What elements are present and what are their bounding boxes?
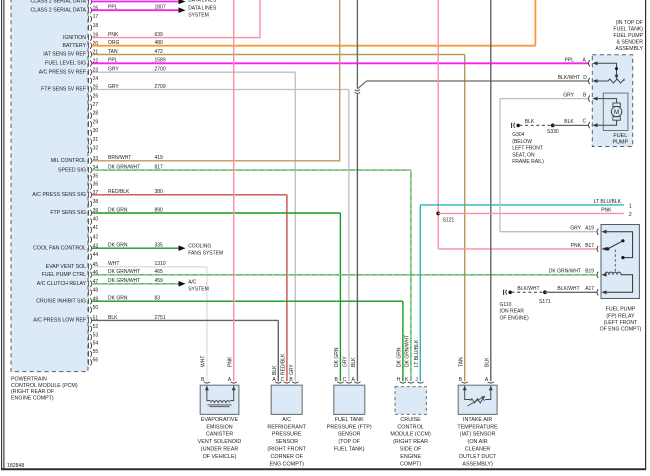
CCM pin K (DK GRN/WHT) xyxy=(408,382,414,383)
fuel pump pin D (BLK/WHT) xyxy=(589,78,590,84)
svg-text:CANISTER: CANISTER xyxy=(206,432,233,438)
relay armature dashed link xyxy=(614,250,616,274)
inline connector on BLK/WHT wire xyxy=(355,90,360,91)
svg-text:MIL CONTROL: MIL CONTROL xyxy=(51,158,86,164)
svg-text:FRAME RAIL): FRAME RAIL) xyxy=(512,159,544,165)
fuel pump pin A (PPL fuel level signal) xyxy=(589,60,590,66)
svg-text:(UNDER REAR: (UNDER REAR xyxy=(201,447,239,453)
svg-text:EMISSION: EMISSION xyxy=(206,424,232,430)
relay coil L1 xyxy=(605,272,621,275)
svg-text:S330: S330 xyxy=(547,129,559,135)
svg-text:55: 55 xyxy=(93,349,99,355)
svg-text:472: 472 xyxy=(155,49,164,55)
wire BLK from S330 to fuel pump pin C xyxy=(553,124,588,126)
svg-text:PRESSURE (FTP): PRESSURE (FTP) xyxy=(327,424,372,430)
fuel pump pin C (BLK ground) xyxy=(589,122,590,128)
EVAP pin A (PNK) xyxy=(231,382,237,383)
svg-text:18: 18 xyxy=(93,23,99,29)
wire DK GRN/WHT 465 fuel pump ctrl (pin 46) to fuel pump relay pin B19 xyxy=(92,274,597,276)
svg-text:M: M xyxy=(614,109,619,116)
svg-text:B19: B19 xyxy=(585,269,594,275)
svg-text:BLK: BLK xyxy=(484,357,490,367)
svg-text:ENGINE COMPT): ENGINE COMPT) xyxy=(11,396,54,402)
svg-text:A/C PRESS SENS SIG: A/C PRESS SENS SIG xyxy=(32,192,86,198)
fuel pump pin B (GRY) xyxy=(589,96,590,102)
svg-text:BLK/WHT: BLK/WHT xyxy=(558,75,580,81)
svg-text:G304: G304 xyxy=(512,132,524,138)
wire BLK below inline connector to FTP sensor pin A xyxy=(356,94,358,381)
page border left (double line) xyxy=(1,0,3,470)
svg-text:COOL FAN CONTROL: COOL FAN CONTROL xyxy=(33,245,86,251)
svg-text:(LEFT FRONT: (LEFT FRONT xyxy=(604,320,638,326)
FTP pin C (GRY) xyxy=(346,382,352,383)
svg-text:CLASS 2 SERIAL DATA: CLASS 2 SERIAL DATA xyxy=(30,0,86,5)
svg-text:A17: A17 xyxy=(585,286,594,292)
fuel tank pressure sensor B2 box xyxy=(334,385,365,414)
svg-text:28: 28 xyxy=(93,111,99,117)
svg-text:(RIGHT REAR OF: (RIGHT REAR OF xyxy=(11,389,55,395)
svg-text:CORNER OF: CORNER OF xyxy=(271,454,304,460)
svg-text:BLK: BLK xyxy=(525,119,535,125)
svg-text:419: 419 xyxy=(155,155,164,161)
svg-text:335: 335 xyxy=(155,243,164,249)
svg-text:480: 480 xyxy=(155,40,164,46)
wire PNK branch from S121 to right edge (2) xyxy=(438,212,624,214)
svg-text:182848: 182848 xyxy=(7,463,24,469)
PCM U1 Powertrain Control Module box xyxy=(11,0,88,372)
svg-text:40: 40 xyxy=(93,217,99,223)
arrow to data lines system xyxy=(179,7,186,13)
svg-text:A/C PRESS LOW REF: A/C PRESS LOW REF xyxy=(33,318,86,324)
PCM connector pins 15-56 xyxy=(88,0,90,4)
svg-text:OUTLET DUCT: OUTLET DUCT xyxy=(459,454,497,460)
svg-text:A19: A19 xyxy=(585,226,594,232)
svg-text:DK GRN: DK GRN xyxy=(334,347,340,367)
FTP pin B (DK GRN) xyxy=(337,382,343,383)
svg-text:EVAP VENT SOL: EVAP VENT SOL xyxy=(46,264,86,270)
wire BRN/WHT 419 MIL control (pin 33), runs right and up off-page xyxy=(92,160,340,162)
splice S171 xyxy=(543,290,547,294)
svg-text:SYSTEM: SYSTEM xyxy=(188,12,209,18)
svg-text:C: C xyxy=(281,377,285,383)
svg-text:TAN: TAN xyxy=(458,357,464,367)
svg-text:BLK: BLK xyxy=(108,315,118,321)
svg-text:53: 53 xyxy=(93,332,99,338)
svg-text:380: 380 xyxy=(155,189,164,195)
svg-text:1310: 1310 xyxy=(155,261,166,267)
svg-text:LEFT FRONT: LEFT FRONT xyxy=(512,146,543,152)
svg-text:EVAPORATIVE: EVAPORATIVE xyxy=(201,417,239,423)
svg-text:DK GRN/WHT: DK GRN/WHT xyxy=(108,278,140,284)
svg-text:CRUISE INHIBIT SIG: CRUISE INHIBIT SIG xyxy=(36,298,86,304)
svg-text:FUEL TANK: FUEL TANK xyxy=(335,417,364,423)
svg-text:WHT: WHT xyxy=(201,356,207,367)
svg-text:S171: S171 xyxy=(539,299,551,305)
svg-text:83: 83 xyxy=(155,296,161,302)
svg-text:1589: 1589 xyxy=(155,58,166,64)
ground G304 xyxy=(511,123,513,128)
svg-text:POWERTRAIN: POWERTRAIN xyxy=(11,376,47,382)
svg-text:24: 24 xyxy=(93,76,99,82)
svg-text:30: 30 xyxy=(93,128,99,134)
svg-text:459: 459 xyxy=(155,278,164,284)
svg-text:17: 17 xyxy=(93,14,99,20)
svg-text:35: 35 xyxy=(93,173,99,179)
svg-text:SENSOR: SENSOR xyxy=(275,439,298,445)
cruise control module box (dashed) xyxy=(395,387,426,415)
svg-text:DK GRN: DK GRN xyxy=(108,296,128,302)
relay pin B19 (DK GRN/WHT) xyxy=(597,272,598,278)
page border right xyxy=(645,0,647,470)
svg-text:(ON AIR: (ON AIR xyxy=(468,439,488,445)
svg-text:PUMP: PUMP xyxy=(613,140,629,146)
svg-text:ORG: ORG xyxy=(108,40,120,46)
svg-text:TAN: TAN xyxy=(108,49,118,55)
fuel pump and sender assembly box xyxy=(592,55,632,147)
arrow to computer data lines system (top, clipped) xyxy=(179,0,186,4)
svg-text:FUEL PUMP CTRL: FUEL PUMP CTRL xyxy=(42,272,87,278)
svg-text:FUEL PUMP: FUEL PUMP xyxy=(606,307,636,313)
svg-text:1: 1 xyxy=(629,204,632,210)
svg-text:GRY: GRY xyxy=(570,226,581,232)
arrow to cooling fans system xyxy=(179,245,186,251)
svg-text:SEAT, ON: SEAT, ON xyxy=(512,152,535,158)
svg-text:2709: 2709 xyxy=(155,84,166,90)
svg-text:(IN TOP OF: (IN TOP OF xyxy=(616,20,643,26)
svg-text:DK GRN: DK GRN xyxy=(108,207,128,213)
svg-text:38: 38 xyxy=(93,199,99,205)
svg-text:(BELOW: (BELOW xyxy=(512,139,532,145)
svg-text:DK GRN/WHT: DK GRN/WHT xyxy=(108,165,140,171)
A/C sensor pin B (GRY) xyxy=(292,382,298,383)
svg-text:465: 465 xyxy=(155,269,164,275)
svg-text:56: 56 xyxy=(93,358,99,364)
relay pin A19 (GRY) xyxy=(597,229,598,235)
svg-text:FUEL: FUEL xyxy=(613,133,627,139)
svg-text:ENGINE: ENGINE xyxy=(400,454,421,460)
svg-text:(ON REAR: (ON REAR xyxy=(500,309,525,315)
svg-text:OF VEHICLE): OF VEHICLE) xyxy=(203,454,237,460)
svg-text:PNK: PNK xyxy=(227,356,233,367)
IAT thermistor symbol xyxy=(465,386,471,400)
svg-text:CONTROL: CONTROL xyxy=(397,424,423,430)
fuel level sender variable resistor R-sender xyxy=(597,63,617,75)
IAT pin A (BLK) xyxy=(488,382,494,383)
svg-text:A/C: A/C xyxy=(188,280,197,286)
fuel pump motor M1 xyxy=(603,93,628,130)
svg-text:PPL: PPL xyxy=(108,5,118,11)
svg-text:DK GRN/WHT: DK GRN/WHT xyxy=(405,335,411,367)
svg-text:G110: G110 xyxy=(500,302,512,308)
svg-text:PPL: PPL xyxy=(108,58,118,64)
svg-text:IAT SENS 5V REF: IAT SENS 5V REF xyxy=(43,52,86,58)
svg-text:BLK/WHT: BLK/WHT xyxy=(517,286,539,292)
svg-text:OF ENG COMPT): OF ENG COMPT) xyxy=(600,327,642,333)
svg-text:A/C CLUTCH RELAY: A/C CLUTCH RELAY xyxy=(37,281,87,287)
svg-text:H: H xyxy=(397,377,401,383)
svg-text:(IAT) SENSOR: (IAT) SENSOR xyxy=(460,432,496,438)
svg-text:ENG COMPT): ENG COMPT) xyxy=(269,461,304,467)
splice S121 xyxy=(436,212,440,216)
wire RED/BLK 380 A/C press sens sig (pin 37) to A/C pressure sensor pin C xyxy=(92,194,287,196)
page border bottom xyxy=(1,468,646,470)
fuel pump relay K1 box xyxy=(601,225,639,299)
svg-text:27: 27 xyxy=(93,102,99,108)
svg-text:2700: 2700 xyxy=(155,67,166,73)
svg-text:& SENDER: & SENDER xyxy=(616,39,643,45)
svg-text:PPL: PPL xyxy=(565,57,575,63)
wire DK GRN/WHT 459 A/C clutch relay (pin 47) to A/C system xyxy=(92,283,179,285)
svg-text:48: 48 xyxy=(93,288,99,294)
svg-text:GRY: GRY xyxy=(108,67,119,73)
svg-text:SIDE OF: SIDE OF xyxy=(400,447,422,453)
relay switch contact xyxy=(605,232,633,258)
svg-text:FUEL LEVEL SIG: FUEL LEVEL SIG xyxy=(45,61,86,67)
svg-text:IGNITION: IGNITION xyxy=(63,35,86,41)
svg-text:LT BLU/BLK: LT BLU/BLK xyxy=(414,339,420,367)
svg-text:INTAKE AIR: INTAKE AIR xyxy=(463,417,492,423)
CCM pin J (LT BLU/BLK) xyxy=(417,382,423,383)
svg-text:GRY: GRY xyxy=(563,92,574,98)
wire PNK 639 ignition feed (pin 19), runs right and up off-page xyxy=(92,37,260,39)
svg-text:CLASS 2 SERIAL DATA: CLASS 2 SERIAL DATA xyxy=(30,7,86,13)
IAT sensor RT1 box xyxy=(458,385,497,414)
wire BLK from top of page to IAT sensor pin A xyxy=(490,0,492,381)
svg-text:FANS SYSTEM: FANS SYSTEM xyxy=(188,251,223,257)
wire DK GRN 83 cruise inhibit sig (pin 49) to CCM pin H xyxy=(92,300,403,302)
svg-text:BLK: BLK xyxy=(272,365,278,375)
wire DK GRN 335 cool fan control (pin 43) to cooling fans system xyxy=(92,247,179,249)
wire PNK from top of page to splice S121 and fuel pump relay pin B17 xyxy=(437,0,439,249)
wire PPL 1807 class 2 serial data (pin 16) xyxy=(92,9,179,11)
svg-text:GRY: GRY xyxy=(343,356,349,367)
relay pin A17 (BLK/WHT) xyxy=(597,289,598,295)
svg-text:PNK: PNK xyxy=(108,32,119,38)
A/C sensor pin A (BLK) xyxy=(275,382,281,383)
ground G110 xyxy=(503,290,505,295)
wire TAN 472 IAT sens 5v ref (pin 21) to IAT sensor pin B xyxy=(92,54,465,56)
wire BLK/WHT dashed from G110 to splice S171 xyxy=(512,291,546,293)
svg-text:RED/BLK: RED/BLK xyxy=(281,353,287,375)
svg-text:D: D xyxy=(583,75,587,81)
wire DK GRN 890 FTP sens sig (pin 39) to FTP sensor pin B xyxy=(92,212,341,214)
wire BLK dashed from G304 to splice S330 xyxy=(520,124,553,126)
svg-text:BLK/WHT: BLK/WHT xyxy=(557,286,579,292)
svg-text:B17: B17 xyxy=(585,243,594,249)
svg-text:31: 31 xyxy=(93,137,99,143)
IAT pin B (TAN) xyxy=(462,382,468,383)
svg-text:C: C xyxy=(343,377,347,383)
svg-text:SYSTEM: SYSTEM xyxy=(188,287,209,293)
svg-text:GRY: GRY xyxy=(108,84,119,90)
svg-text:DATA LINES: DATA LINES xyxy=(188,0,217,3)
svg-text:42: 42 xyxy=(93,235,99,241)
svg-text:PRESSURE: PRESSURE xyxy=(272,432,302,438)
svg-text:CLEANER: CLEANER xyxy=(465,447,491,453)
svg-text:FTP SENS 5V REF: FTP SENS 5V REF xyxy=(41,87,86,93)
svg-text:CRUISE: CRUISE xyxy=(400,417,421,423)
svg-text:MODULE (CCM): MODULE (CCM) xyxy=(390,432,431,438)
svg-text:COMPT): COMPT) xyxy=(400,461,421,467)
svg-text:2: 2 xyxy=(629,212,632,218)
svg-text:DK GRN: DK GRN xyxy=(108,243,128,249)
svg-text:(RIGHT REAR: (RIGHT REAR xyxy=(393,439,428,445)
svg-text:29: 29 xyxy=(93,119,99,125)
wire PPL class 2 serial data (pin 15) to data lines system xyxy=(92,1,179,3)
svg-text:CONTROL MODULE (PCM): CONTROL MODULE (PCM) xyxy=(11,383,78,389)
svg-text:TEMPERATURE: TEMPERATURE xyxy=(457,424,498,430)
wire ORG 480 battery feed (pin 20), runs right and up off-page xyxy=(92,45,536,47)
CCM pin H (DK GRN) xyxy=(400,382,406,383)
svg-text:COOLING: COOLING xyxy=(188,244,211,250)
wire BLK/WHT jog from connector to fuel pump pin D xyxy=(357,81,366,89)
arrow to A/C system xyxy=(179,281,186,287)
svg-text:26: 26 xyxy=(93,93,99,99)
svg-text:44: 44 xyxy=(93,252,99,258)
svg-text:50: 50 xyxy=(93,305,99,311)
svg-text:PNK: PNK xyxy=(571,243,582,249)
svg-text:LT BLU/BLK: LT BLU/BLK xyxy=(594,199,622,205)
FTP pin A (BLK) xyxy=(354,382,360,383)
svg-text:41: 41 xyxy=(93,225,99,231)
wire WHT 1310 evap vent sol (pin 45) to EVAP canister vent solenoid pin B xyxy=(92,266,207,268)
svg-text:1807: 1807 xyxy=(155,5,166,11)
svg-text:SPEED SIG: SPEED SIG xyxy=(58,167,86,173)
svg-text:(TOP OF: (TOP OF xyxy=(338,439,360,445)
svg-text:BLK: BLK xyxy=(564,119,574,125)
wire DK GRN/WHT 817 speed sig (pin 34) to CCM pin K xyxy=(92,169,411,171)
EVAP pin B (WHT) xyxy=(204,382,210,383)
svg-text:FTP SENS SIG: FTP SENS SIG xyxy=(50,210,86,216)
svg-text:SENSOR: SENSOR xyxy=(338,432,361,438)
svg-text:(RIGHT FRONT: (RIGHT FRONT xyxy=(267,447,306,453)
svg-text:ASSEMBLY: ASSEMBLY xyxy=(615,46,643,52)
svg-text:DK GRN/WHT: DK GRN/WHT xyxy=(549,269,581,275)
wire GRY from relay pin A19 to fuel pump pin B xyxy=(500,231,597,233)
svg-text:WHT: WHT xyxy=(108,261,119,267)
EVAP canister vent solenoid L2 box xyxy=(200,385,239,414)
svg-text:A/C: A/C xyxy=(282,417,291,423)
wire BLK/WHT from top of page down to inline connector xyxy=(356,0,358,89)
svg-text:BRN/WHT: BRN/WHT xyxy=(108,155,131,161)
svg-text:639: 639 xyxy=(155,32,164,38)
splice S330 xyxy=(551,124,555,128)
svg-text:S121: S121 xyxy=(443,218,455,224)
svg-text:GRY: GRY xyxy=(289,364,295,375)
relay pin B17 (PNK) xyxy=(597,246,598,252)
wire LT BLU/BLK from CCM pin J to right edge (1) xyxy=(419,205,421,381)
svg-text:BATTERY: BATTERY xyxy=(63,43,87,49)
wire GRY 2700 A/C press 5v ref (pin 23) to A/C pressure sensor pin B xyxy=(92,71,295,73)
wire PNK from top of page to EVAP solenoid pin A xyxy=(233,0,235,381)
A/C sensor pin C (RED/BLK) xyxy=(284,382,290,383)
svg-text:FUEL PUMP: FUEL PUMP xyxy=(614,33,644,39)
svg-text:2751: 2751 xyxy=(155,315,166,321)
svg-text:817: 817 xyxy=(155,165,164,171)
svg-text:890: 890 xyxy=(155,207,164,213)
svg-text:32: 32 xyxy=(93,146,99,152)
svg-text:VENT SOLENOID: VENT SOLENOID xyxy=(198,439,242,445)
wire BLK/WHT from S171 to relay pin A17 xyxy=(545,291,597,293)
svg-text:DK GRN/WHT: DK GRN/WHT xyxy=(108,269,140,275)
svg-text:A/C PRESS 5V REF: A/C PRESS 5V REF xyxy=(39,69,86,75)
svg-text:RED/BLK: RED/BLK xyxy=(108,189,130,195)
svg-text:BLK: BLK xyxy=(351,357,357,367)
svg-text:PNK: PNK xyxy=(601,208,612,214)
svg-text:OF ENGINE): OF ENGINE) xyxy=(500,315,530,321)
svg-text:DK GRN: DK GRN xyxy=(397,347,403,367)
wire BLK 2751 A/C press low ref (pin 51) to A/C pressure sensor pin A xyxy=(92,319,278,321)
svg-text:36: 36 xyxy=(93,182,99,188)
A/C refrigerant pressure sensor B1 box xyxy=(271,385,302,414)
wire GRY 2709 FTP sens 5v ref (pin 25) to FTP sensor pin C xyxy=(92,89,349,91)
svg-text:FUEL TANK): FUEL TANK) xyxy=(613,27,643,33)
svg-text:REFRIGERANT: REFRIGERANT xyxy=(267,424,306,430)
svg-text:DATA LINES: DATA LINES xyxy=(188,5,217,11)
svg-text:C: C xyxy=(583,119,587,125)
svg-text:54: 54 xyxy=(93,341,99,347)
wire PPL 1589 fuel level sig (pin 22) to fuel pump sender pin A xyxy=(92,62,588,64)
svg-text:52: 52 xyxy=(93,324,99,330)
svg-text:(FP) RELAY: (FP) RELAY xyxy=(606,313,635,319)
EVAP solenoid coil symbol xyxy=(207,386,211,401)
svg-text:FUEL TANK): FUEL TANK) xyxy=(334,447,365,453)
svg-text:ASSEMBLY): ASSEMBLY) xyxy=(462,461,493,467)
